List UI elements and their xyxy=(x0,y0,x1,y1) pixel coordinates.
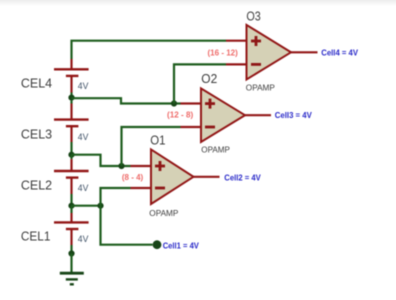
ground symbol xyxy=(60,273,84,284)
wire node 8V branch up to O2 minus input xyxy=(122,127,181,166)
wire node 4V horizontal xyxy=(72,205,101,207)
battery CEL3 bottom pin xyxy=(70,126,72,142)
svg-text:Cell4 = 4V: Cell4 = 4V xyxy=(321,48,358,58)
wire CEL2 bottom pin to node 4V xyxy=(70,194,72,206)
op-amp O3 output pin xyxy=(291,51,318,53)
wire node 12V vertical to CEL3 xyxy=(70,101,72,104)
svg-text:4V: 4V xyxy=(78,234,89,244)
op-amp O1 minus symbol xyxy=(155,187,165,190)
svg-text:(12 - 8): (12 - 8) xyxy=(167,110,193,120)
op-amp O2 output pin xyxy=(245,114,271,116)
node 12V junction dot xyxy=(68,95,74,101)
battery CEL1 positive plate xyxy=(54,221,89,223)
svg-text:O3: O3 xyxy=(246,8,260,23)
svg-text:4V: 4V xyxy=(78,183,89,193)
op-amp O3 plus symbol xyxy=(251,36,261,46)
op-amp O1 plus symbol xyxy=(155,161,165,171)
battery CEL2 positive plate xyxy=(54,170,89,172)
node 8V branch junction dot xyxy=(118,163,124,169)
wire CEL4 bottom pin to node 12V xyxy=(70,93,72,101)
op-amp O1 output pin xyxy=(194,176,220,178)
svg-text:4V: 4V xyxy=(78,132,89,142)
op-amp O3 plus input pin xyxy=(226,40,247,42)
svg-text:CEL4: CEL4 xyxy=(21,76,52,91)
svg-text:OPAMP: OPAMP xyxy=(201,145,230,155)
battery CEL3 negative plate xyxy=(66,125,79,127)
op-amp O2 body xyxy=(201,88,245,142)
wire CEL3 bottom pin to node 8V xyxy=(70,142,72,155)
wire node 8V to O1 plus input xyxy=(72,155,131,166)
wire node 4V vertical to CEL1 xyxy=(70,206,72,213)
node 12V branch junction dot xyxy=(171,100,177,106)
svg-text:CEL3: CEL3 xyxy=(21,127,52,142)
svg-text:(16 - 12): (16 - 12) xyxy=(208,48,238,58)
svg-text:O2: O2 xyxy=(201,71,217,86)
op-amp O1 plus input pin xyxy=(131,165,152,167)
wire 16V top rail xyxy=(72,41,227,59)
node 4V junction dot left xyxy=(68,203,74,209)
svg-text:Cell3 = 4V: Cell3 = 4V xyxy=(275,110,312,120)
op-amp O2 minus symbol xyxy=(205,126,215,129)
op-amp O2 plus input pin xyxy=(181,102,202,104)
battery CEL4 bottom pin xyxy=(70,76,72,93)
op-amp O2 plus symbol xyxy=(205,99,215,109)
svg-text:Cell2 = 4V: Cell2 = 4V xyxy=(224,172,261,182)
battery CEL1 top pin xyxy=(70,213,72,222)
wire CEL1 bottom pin to ground node xyxy=(70,245,72,254)
op-amp O1 body xyxy=(151,149,194,204)
op-amp O3 body xyxy=(247,25,292,80)
svg-text:OPAMP: OPAMP xyxy=(149,208,179,218)
wire node 8V vertical to CEL2 xyxy=(70,155,72,159)
node 8V junction dot xyxy=(68,152,74,158)
battery CEL4 positive plate xyxy=(54,68,89,70)
battery CEL2 negative plate xyxy=(66,176,79,178)
battery CEL1 negative plate xyxy=(66,228,79,230)
wire node 12V branch up to O3 minus input xyxy=(174,64,226,103)
op-amp O2 minus input pin xyxy=(181,126,202,128)
battery CEL2 top pin xyxy=(70,159,72,170)
op-amp O3 minus input pin xyxy=(226,63,247,65)
battery CEL1 bottom pin xyxy=(70,229,72,245)
wire ground stem xyxy=(70,254,72,273)
battery CEL3 positive plate xyxy=(54,118,89,120)
svg-text:OPAMP: OPAMP xyxy=(246,83,276,93)
svg-text:Cell1 = 4V: Cell1 = 4V xyxy=(163,240,199,250)
node 4V junction dot right xyxy=(97,203,103,209)
ground node junction dot xyxy=(68,250,74,256)
wire node 4V branch down to Cell1 terminal xyxy=(101,206,153,245)
wire node 12V to O2 plus input xyxy=(72,98,181,103)
svg-text:O1: O1 xyxy=(150,132,165,147)
battery CEL2 bottom pin xyxy=(70,178,72,194)
svg-text:CEL2: CEL2 xyxy=(21,178,52,193)
svg-text:4V: 4V xyxy=(78,81,89,91)
Cell1 terminal dot xyxy=(153,240,162,249)
battery CEL3 top pin xyxy=(70,104,72,120)
op-amp O3 minus symbol xyxy=(251,63,261,66)
wire node 4V branch up to O1 minus input xyxy=(101,188,131,206)
op-amp O1 minus input pin xyxy=(131,187,152,189)
svg-text:(8 - 4): (8 - 4) xyxy=(122,172,143,182)
battery CEL4 top pin xyxy=(70,59,72,69)
battery CEL4 negative plate xyxy=(66,75,79,77)
svg-text:CEL1: CEL1 xyxy=(21,229,51,244)
